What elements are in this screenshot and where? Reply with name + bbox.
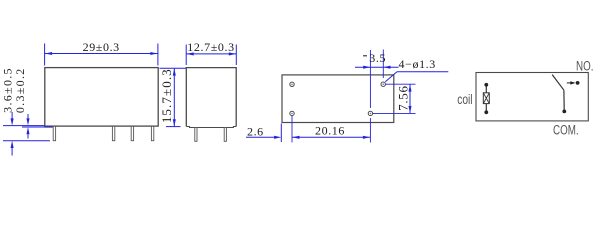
coil terminal bottom [484, 110, 488, 114]
switch common terminal [562, 110, 566, 114]
front view pin 2 [112, 126, 114, 140]
dimension 29±0.3 [45, 44, 158, 66]
dimension 15.7±0.3 [160, 68, 187, 126]
dimension 12.7±0.3 [186, 45, 236, 66]
svg-text:0.3±0.2: 0.3±0.2 [13, 67, 27, 113]
svg-text:7.56: 7.56 [395, 85, 410, 111]
dimension 2.6 [246, 124, 281, 143]
svg-text:coil: coil [457, 91, 472, 107]
coil terminal top [484, 83, 488, 87]
coil wire [485, 85, 487, 113]
hole top-right [381, 82, 385, 86]
PCB layout rectangle [282, 75, 394, 123]
dimension 3.5 [355, 66, 399, 68]
front view pin 1 [53, 126, 55, 140]
svg-text:NO.: NO. [576, 58, 593, 74]
svg-text:12.7±0.3: 12.7±0.3 [187, 40, 234, 54]
svg-text:29±0.3: 29±0.3 [83, 40, 120, 54]
svg-text:2.6: 2.6 [247, 124, 264, 138]
svg-text:3.5: 3.5 [369, 51, 386, 65]
hole center ticks [291, 83, 384, 114]
switch blade [552, 75, 564, 91]
svg-text:COM.: COM. [553, 122, 579, 138]
svg-text:20.16: 20.16 [315, 124, 345, 138]
switch wire [563, 90, 565, 110]
dimension 7.56 [409, 84, 411, 113]
NO terminal [576, 81, 580, 85]
dimension 20.16 [292, 136, 370, 138]
schematic box [476, 73, 588, 121]
hole bottom-left [290, 111, 294, 115]
hole centerlines [292, 50, 416, 143]
front view pin 4 [151, 126, 153, 140]
front view pin 3 [131, 126, 133, 140]
hole top-left [290, 82, 294, 86]
relay body side view [186, 68, 236, 128]
side view pin 2 [224, 128, 226, 142]
actuation arrow [567, 82, 572, 84]
relay body front view [45, 68, 158, 128]
svg-text:4−ø1.3: 4−ø1.3 [399, 57, 436, 71]
coil element (crossed box) [483, 93, 489, 104]
svg-text:15.7±0.3: 15.7±0.3 [159, 68, 174, 123]
hole bottom-right [368, 111, 372, 115]
side view pin 1 [195, 128, 197, 142]
